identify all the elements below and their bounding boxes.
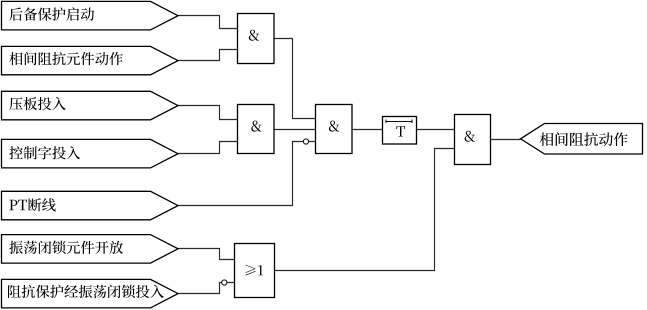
wire: 阻抗保护经振荡闭锁投入 to OR U5 inverted input 2 xyxy=(178,283,235,294)
input flag: 振荡闭锁元件开放 xyxy=(2,235,179,264)
wire: OR U5 output to AND U4 input 2 xyxy=(275,149,455,271)
AND gate U1 xyxy=(238,14,275,64)
wire: timer T output to AND U4 input 1 xyxy=(417,129,455,131)
wire: AND U2 output to AND U3 input 2 xyxy=(274,129,316,131)
output flag: 相间阻抗动作 xyxy=(521,124,643,155)
wire: 振荡闭锁元件开放 to OR U5 input 1 xyxy=(178,249,235,260)
inverter bubble at OR U5 input 2 xyxy=(222,280,227,285)
input flag: 控制字投入 xyxy=(2,139,179,168)
OR gate U5 (>=1) xyxy=(235,244,275,298)
input flag: 后备保护启动 xyxy=(2,1,179,30)
wire: AND U1 output to AND U3 input 1 xyxy=(274,39,316,119)
wire: 控制字投入 to AND U2 input 2 xyxy=(178,142,238,154)
inverter bubble at AND U3 input 3 xyxy=(303,139,308,144)
wire: 后备保护启动 to AND U1 input 1 xyxy=(178,16,238,29)
timer T (delay element) xyxy=(383,117,417,145)
AND gate U2 xyxy=(238,105,275,154)
AND gate U3 xyxy=(316,105,353,154)
wire: 压板投入 to AND U2 input 1 xyxy=(178,106,238,120)
input flag: PT断线 xyxy=(2,191,179,220)
input flag: 相间阻抗元件动作 xyxy=(2,46,179,74)
wire: AND U3 output to timer T input xyxy=(353,129,383,131)
input flag: 压板投入 xyxy=(2,91,179,120)
wire: PT断线 to AND U3 inverted input 3 xyxy=(178,142,316,206)
input flag: 阻抗保护经振荡闭锁投入 xyxy=(2,279,179,308)
AND gate U4 xyxy=(455,115,491,165)
wire: 相间阻抗元件动作 to AND U1 input 2 xyxy=(178,50,238,61)
wire: AND U4 output to 相间阻抗动作 xyxy=(491,139,521,141)
